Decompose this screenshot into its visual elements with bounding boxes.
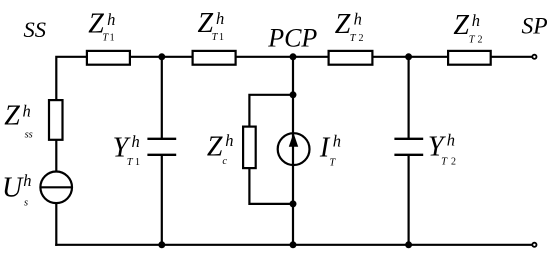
junction Z_c loop bottom — [290, 200, 297, 207]
resistor Z_T1 #1 — [87, 51, 130, 65]
wire Y_T2 branch lower — [408, 155, 410, 245]
wire bottom rail — [55, 244, 532, 246]
terminal SP top — [532, 55, 536, 59]
impedance Z_ss box — [49, 100, 63, 140]
svg-text:Z: Z — [453, 10, 469, 41]
svg-text:Z: Z — [207, 131, 223, 162]
junction Z_c loop top — [290, 91, 297, 98]
svg-text:h: h — [107, 10, 115, 29]
svg-text:U: U — [2, 173, 24, 204]
svg-text:h: h — [23, 102, 31, 121]
svg-text:h: h — [132, 132, 140, 151]
resistor Z_T2 #3 — [329, 51, 373, 65]
junction node top Y_T2 — [405, 53, 412, 60]
svg-text:h: h — [333, 132, 341, 151]
wire U_s to bottom rail — [55, 202, 57, 246]
svg-text:h: h — [354, 9, 362, 28]
wire top rail R4 to SP terminal — [491, 56, 533, 58]
svg-text:SS: SS — [24, 17, 47, 42]
svg-text:h: h — [447, 130, 455, 149]
wire top rail R3 to R4 — [372, 56, 448, 58]
svg-text:h: h — [225, 131, 233, 150]
junction node PCP — [290, 53, 297, 60]
wire top rail R1 to R2 — [130, 56, 193, 58]
svg-text:1: 1 — [110, 33, 115, 44]
junction node bottom Y_T1 — [158, 241, 165, 248]
svg-text:1: 1 — [219, 32, 224, 43]
junction node bottom Y_T2 — [405, 241, 412, 248]
wire top rail R2 to R3 — [236, 56, 329, 58]
svg-text:Z: Z — [335, 9, 351, 40]
wire SS corner: top rail left segment — [56, 57, 87, 100]
wire Z_c loop top — [249, 95, 293, 127]
capacitor Y_T2 bottom plate — [394, 154, 423, 156]
current source I_T arrowhead — [289, 133, 298, 147]
svg-text:ss: ss — [25, 129, 33, 140]
svg-text:h: h — [472, 11, 480, 30]
svg-text:c: c — [222, 156, 227, 167]
wire PCP vertical branch — [292, 57, 294, 245]
capacitor Y_T1 top plate — [147, 138, 176, 140]
capacitor Y_T1 bottom plate — [147, 154, 176, 156]
junction node top Y_T1 — [158, 53, 165, 60]
source U_s bar — [40, 186, 72, 188]
wire Z_ss to U_s — [55, 139, 57, 173]
svg-text:s: s — [24, 198, 28, 209]
source U_s circle — [40, 172, 72, 204]
junction node bottom center — [290, 241, 297, 248]
resistor Z_T1 #2 — [193, 51, 236, 65]
wire Y_T1 branch upper — [161, 57, 163, 139]
svg-text:Z: Z — [4, 101, 20, 132]
impedance Z_c box — [243, 127, 256, 169]
svg-text:h: h — [23, 171, 31, 190]
svg-text:h: h — [216, 9, 224, 28]
svg-text:2: 2 — [451, 157, 456, 168]
capacitor Y_T2 top plate — [394, 138, 423, 140]
terminal SP bottom — [532, 243, 536, 247]
svg-text:1: 1 — [135, 157, 140, 168]
current source I_T circle — [278, 133, 310, 165]
svg-text:PCP: PCP — [267, 23, 317, 52]
svg-text:2: 2 — [359, 33, 364, 44]
svg-text:SP: SP — [522, 14, 548, 40]
svg-text:2: 2 — [478, 34, 483, 45]
wire Y_T1 branch lower — [161, 155, 163, 245]
wire Z_c loop bottom — [249, 168, 293, 204]
resistor Z_T2 #4 — [448, 51, 491, 65]
wire Y_T2 branch upper — [408, 57, 410, 139]
